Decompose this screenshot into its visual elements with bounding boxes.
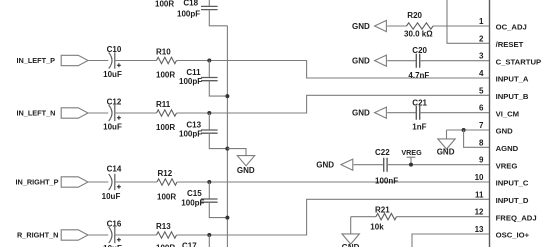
svg-text:10: 10 <box>475 173 484 182</box>
svg-text:R10: R10 <box>156 48 171 57</box>
wire pin 7 GND stub <box>447 129 490 131</box>
svg-text:5: 5 <box>479 86 484 95</box>
svg-text:100R: 100R <box>156 123 175 132</box>
svg-text:30.0 kΩ: 30.0 kΩ <box>404 30 433 39</box>
svg-text:INPUT_A: INPUT_A <box>496 75 529 84</box>
svg-text:2: 2 <box>479 34 484 43</box>
svg-text:AGND: AGND <box>496 144 519 153</box>
svg-text:C22: C22 <box>375 148 390 157</box>
svg-text:C20: C20 <box>412 46 427 55</box>
resistor R20 30.0 kOhm <box>407 23 434 29</box>
connector IN_LEFT_N <box>61 108 88 118</box>
svg-text:12: 12 <box>475 208 484 217</box>
svg-text:C11: C11 <box>186 68 201 77</box>
svg-text:C14: C14 <box>107 165 122 174</box>
svg-text:4: 4 <box>479 69 484 78</box>
node junction R4/C17 <box>207 233 211 237</box>
svg-text:8: 8 <box>479 138 484 147</box>
svg-text:6: 6 <box>479 104 484 113</box>
svg-text:VI_CM: VI_CM <box>496 109 519 118</box>
capacitor C14 10uF <box>109 174 112 190</box>
node junction R3/C15 <box>207 180 211 184</box>
svg-text:GND: GND <box>352 22 370 31</box>
capacitor C16 10uF <box>109 227 112 243</box>
svg-text:9: 9 <box>479 156 484 165</box>
svg-text:100R: 100R <box>156 243 175 247</box>
svg-text:100pF: 100pF <box>179 77 202 86</box>
resistor R11 100R <box>157 110 177 116</box>
capacitor C15 100pF <box>208 182 210 199</box>
svg-text:IN_LEFT_N: IN_LEFT_N <box>17 109 56 118</box>
svg-text:100R: 100R <box>157 192 176 201</box>
wire common vertical net <box>226 26 228 247</box>
svg-text:100pF: 100pF <box>179 130 202 139</box>
ground symbol mid <box>237 156 254 166</box>
node junction C13/common <box>225 147 229 151</box>
svg-text:GND: GND <box>496 127 514 136</box>
wire GND arrow to C22 <box>354 164 384 166</box>
wire connector to C12 <box>88 112 108 114</box>
wire pin 7 to pin 8 AGND <box>464 130 490 147</box>
node junction R1/C11 <box>207 59 211 63</box>
svg-text:C10: C10 <box>107 45 122 54</box>
wire C20 to pin 3 C_STARTUP <box>420 60 490 62</box>
svg-text:GND: GND <box>437 148 455 157</box>
capacitor C22 100nF <box>384 158 387 172</box>
svg-text:C18: C18 <box>183 0 198 8</box>
wire GND arrow to C21 <box>387 112 416 114</box>
svg-text:R13: R13 <box>156 222 171 231</box>
capacitor C20 4.7nF <box>416 54 419 68</box>
connector IN_RIGHT_P <box>61 177 88 187</box>
wire R12 to pin 10 INPUT_C <box>177 181 490 183</box>
svg-text:VREG: VREG <box>401 148 422 157</box>
svg-text:4.7nF: 4.7nF <box>408 71 429 80</box>
svg-text:OSC_IO+: OSC_IO+ <box>496 231 530 240</box>
wire oscillator net to pin 13 OSC_IO+ <box>412 234 490 247</box>
node junction C11/common <box>225 94 229 98</box>
svg-text:100R: 100R <box>156 70 175 79</box>
svg-text:R21: R21 <box>375 206 390 215</box>
wire C14 to R12 <box>115 181 157 183</box>
svg-text:C15: C15 <box>187 189 202 198</box>
ground symbol for R21 <box>350 217 352 234</box>
connector IN_LEFT_P <box>61 55 88 65</box>
wire C12 to R11 <box>115 112 157 114</box>
svg-text:10uF: 10uF <box>103 123 122 132</box>
svg-text:C16: C16 <box>107 220 122 229</box>
wire C10 to R10 <box>115 60 157 62</box>
capacitor C10 10uF <box>109 53 112 69</box>
svg-text:GND: GND <box>237 166 255 175</box>
capacitor C21 1nF <box>416 106 419 120</box>
svg-text:11: 11 <box>475 190 484 199</box>
svg-text:GND: GND <box>352 57 370 66</box>
capacitor C12 10uF <box>109 105 112 121</box>
svg-text:OC_ADJ: OC_ADJ <box>496 23 527 32</box>
connector R_RIGHT_N <box>61 230 88 240</box>
wire GND arrow to R20 <box>387 25 406 27</box>
svg-text:INPUT_C: INPUT_C <box>496 179 529 188</box>
capacitor C11 100pF <box>208 61 210 78</box>
wire R13 to jog, then to pin 11 INPUT_D <box>177 199 490 235</box>
svg-text:C17: C17 <box>182 242 197 247</box>
svg-text:100pF: 100pF <box>177 9 200 18</box>
wire GND to R21 <box>351 216 376 218</box>
svg-text:C13: C13 <box>186 121 201 130</box>
node junction R2/C13 <box>207 111 211 115</box>
capacitor C18 <box>208 0 210 6</box>
svg-text:100nF: 100nF <box>375 176 398 185</box>
op-amp U1 (class-D amp IC) left edge <box>489 0 491 247</box>
wire connector to C14 <box>88 181 108 183</box>
svg-text:7: 7 <box>479 121 484 130</box>
wire C16 to R13 <box>115 234 157 236</box>
wire C18 bottom to common vertical <box>209 10 227 26</box>
svg-text:100R: 100R <box>155 0 174 9</box>
svg-text:C12: C12 <box>107 98 122 107</box>
svg-text:10uF: 10uF <box>102 192 121 201</box>
svg-text:10uF: 10uF <box>103 70 122 79</box>
svg-text:C_STARTUP: C_STARTUP <box>496 57 542 66</box>
wire R21 to pin 12 FREQ_ADJ <box>397 216 490 218</box>
svg-text:R20: R20 <box>407 11 422 20</box>
wire C21 to pin 6 VI_CM <box>420 112 490 114</box>
capacitor C17 (clipped) <box>208 235 210 247</box>
wire connector to C16 <box>88 234 108 236</box>
svg-text:C21: C21 <box>412 98 427 107</box>
svg-text:GND: GND <box>352 109 370 118</box>
capacitor C13 100pF <box>208 113 210 130</box>
svg-text:R_RIGHT_N: R_RIGHT_N <box>17 231 58 240</box>
svg-text:INPUT_D: INPUT_D <box>496 196 529 205</box>
svg-text:GND: GND <box>316 161 334 170</box>
svg-text:1nF: 1nF <box>412 122 426 131</box>
svg-text:R11: R11 <box>156 100 171 109</box>
svg-text:INPUT_B: INPUT_B <box>496 92 529 101</box>
wire /RESET pull-up to pin 2 <box>447 0 490 43</box>
resistor R10 100R <box>157 57 177 63</box>
svg-text:IN_LEFT_P: IN_LEFT_P <box>17 56 56 65</box>
wire C22 to pin 9 VREG <box>387 164 489 166</box>
svg-text:FREQ_ADJ: FREQ_ADJ <box>496 213 537 222</box>
svg-text:VREG: VREG <box>496 161 518 170</box>
wire R20 to pin 1 OC_ADJ <box>433 25 490 27</box>
node junction C15/common <box>225 216 229 220</box>
resistor R13 100R <box>157 232 177 238</box>
svg-text:IN_RIGHT_P: IN_RIGHT_P <box>16 178 59 187</box>
svg-text:10k: 10k <box>370 222 384 231</box>
svg-text:3: 3 <box>479 52 484 61</box>
svg-text:R12: R12 <box>158 169 173 178</box>
wire R11 to jog, then to pin 5 INPUT_B <box>177 95 490 113</box>
wire R10 to jog, then to pin 4 INPUT_A <box>177 61 490 79</box>
svg-text:/RESET: /RESET <box>496 40 524 49</box>
wire connector to C10 <box>88 60 108 62</box>
node junction pin7/pin8 <box>462 128 466 132</box>
svg-text:13: 13 <box>475 225 484 234</box>
svg-text:1: 1 <box>479 17 484 26</box>
wire GND arrow to C20 <box>387 60 416 62</box>
svg-text:GND: GND <box>342 243 360 247</box>
svg-text:100pF: 100pF <box>181 199 204 208</box>
resistor R12 100R <box>157 179 177 185</box>
ground symbol pins 7/8 <box>446 130 448 139</box>
resistor R21 10k <box>376 213 397 219</box>
wire C13 bottom to GND <box>227 149 246 156</box>
